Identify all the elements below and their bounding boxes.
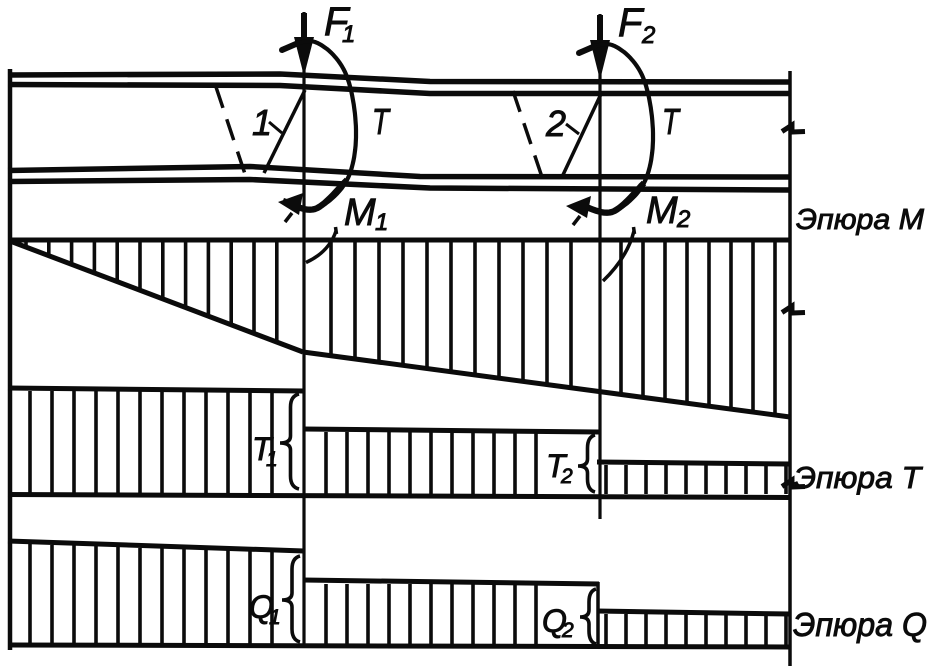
break mark middle on right line <box>782 306 805 313</box>
svg-text:1: 1 <box>342 21 355 48</box>
force F1 vertical action line <box>302 12 305 648</box>
svg-text:M: M <box>646 190 678 232</box>
svg-text:Эпюра Т: Эпюра Т <box>794 460 923 495</box>
section 1 dashed trace <box>216 87 246 177</box>
svg-text:1: 1 <box>266 448 278 471</box>
shear diagram block-3 top edge <box>597 611 790 614</box>
torque arrow T ellipse at section 1 <box>282 41 356 210</box>
torque diagram block-2 top edge <box>303 429 599 432</box>
torque arrow T ellipse at section 2 <box>579 44 653 213</box>
break mark top on right line <box>782 125 805 132</box>
svg-text:F: F <box>618 1 645 45</box>
left end vertical line of shaft/diagrams <box>8 69 13 650</box>
torque diagram block-1 top edge <box>8 388 304 391</box>
shaft lower wall (double line) <box>8 167 790 178</box>
shear diagram block-2 top edge <box>303 580 599 584</box>
moment M2 leader arc <box>603 231 634 281</box>
force F1 arrow shaft+head <box>301 13 307 48</box>
svg-text:Эпюра Q: Эпюра Q <box>793 606 927 643</box>
arrowhead of torque arrow 2 <box>566 196 591 218</box>
svg-text:M: M <box>344 192 376 234</box>
force F2 arrow shaft+head <box>597 15 603 50</box>
torque diagram baseline <box>8 495 790 498</box>
bending moment diagram sloped bottom edge (left span) <box>10 241 303 352</box>
svg-text:2: 2 <box>676 206 690 233</box>
arrowhead of torque arrow 1 <box>278 193 303 215</box>
hatching of diagram T <box>30 391 786 494</box>
svg-text:T: T <box>372 101 391 142</box>
shaft upper wall (double line) <box>8 74 790 82</box>
hatching of diagram M <box>26 242 775 414</box>
section 2 dashed trace <box>513 91 542 177</box>
bending moment diagram top edge <box>8 238 790 243</box>
svg-text:2: 2 <box>545 103 566 144</box>
svg-text:2: 2 <box>561 619 574 642</box>
svg-text:2: 2 <box>641 22 655 49</box>
shear diagram baseline <box>8 645 790 647</box>
svg-text:2: 2 <box>560 465 573 488</box>
section 1 solid diagonal <box>264 90 305 173</box>
bending moment diagram sloped bottom edge (right span) <box>303 352 790 417</box>
right boundary vertical line <box>788 71 792 666</box>
break mark bottom on right line <box>782 480 805 487</box>
svg-text:Эпюра М: Эпюра М <box>796 204 925 236</box>
svg-text:1: 1 <box>269 606 281 629</box>
shear diagram step at section 2 <box>596 582 600 646</box>
svg-text:T: T <box>662 101 681 142</box>
hatching of diagram Q <box>30 544 786 645</box>
moment M1 leader arc <box>306 231 336 263</box>
shear diagram block-1 top edge <box>8 541 304 551</box>
torque diagram block-3 top edge <box>597 462 790 464</box>
svg-text:1: 1 <box>375 209 388 236</box>
section 2 solid diagonal <box>562 94 601 177</box>
force F2 vertical action line (upper part) <box>598 14 601 519</box>
